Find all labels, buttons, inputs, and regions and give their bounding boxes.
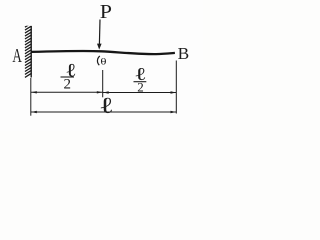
beam AB xyxy=(31,51,175,54)
dimension line l/2 left xyxy=(31,91,102,93)
centre extension line xyxy=(102,70,104,97)
fraction bar left xyxy=(61,76,75,78)
dimension line l/2 right xyxy=(103,92,176,94)
wall hatching (fixed support) xyxy=(25,23,32,77)
fraction bar right xyxy=(134,81,147,83)
svg-text:P: P xyxy=(100,0,112,23)
angle arc mark xyxy=(97,56,99,65)
svg-text:B: B xyxy=(178,44,190,63)
svg-text:θ: θ xyxy=(100,57,106,67)
svg-text:A: A xyxy=(12,44,22,67)
left extension line xyxy=(30,78,32,116)
right extension line xyxy=(175,61,177,114)
svg-text:ℓ: ℓ xyxy=(99,93,114,118)
svg-text:2: 2 xyxy=(137,80,144,95)
dimension line l bottom xyxy=(31,111,176,113)
wall face xyxy=(30,26,32,78)
svg-text:2: 2 xyxy=(64,76,72,92)
load arrow P xyxy=(98,20,101,45)
